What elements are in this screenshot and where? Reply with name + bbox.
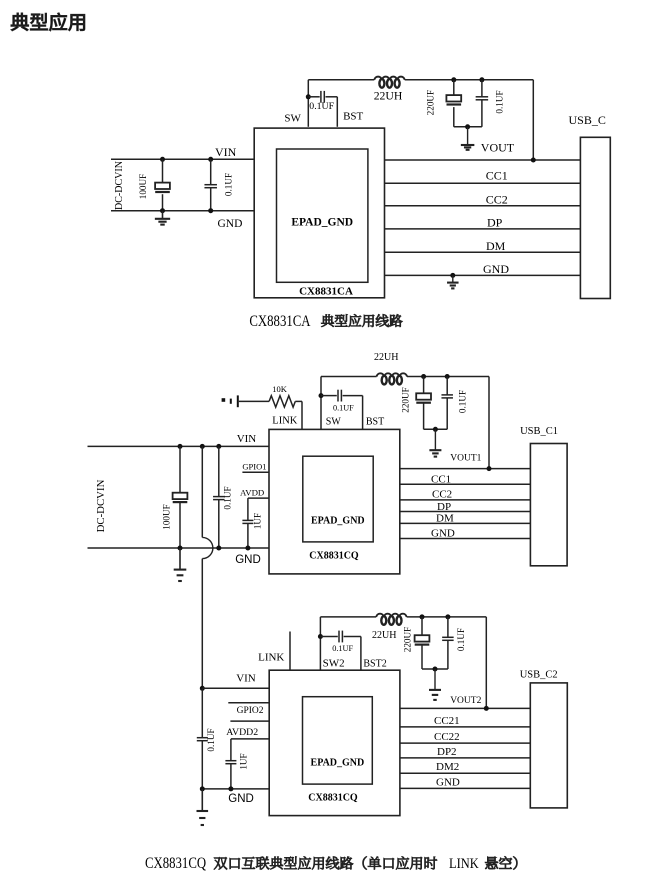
wire GND line (circuit 1) <box>385 274 581 276</box>
svg-text:CC1: CC1 <box>486 168 508 182</box>
svg-text:0.1UF: 0.1UF <box>458 390 468 413</box>
svg-text:CX8831CA: CX8831CA <box>299 286 353 298</box>
svg-text:EPAD_GND: EPAD_GND <box>311 515 365 526</box>
inductor L2 22UH (circuit 2) <box>377 373 407 384</box>
svg-text:DM: DM <box>436 513 454 525</box>
svg-text:SW2: SW2 <box>323 658 345 670</box>
svg-text:CX8831CQ: CX8831CQ <box>308 792 358 803</box>
U2 EPAD_GND inner pad box <box>303 456 373 542</box>
value label 0.1UF (C3) <box>309 101 334 112</box>
svg-text:CC2: CC2 <box>432 489 452 501</box>
ground symbol under output caps (circuit 1) <box>461 127 475 150</box>
wire VIN input (circuit 2) <box>88 445 270 447</box>
wire CC2 line (circuit 2) <box>400 499 531 501</box>
pin label AVDD2 (U3) <box>226 727 258 738</box>
wire DM2 line (circuit 3) <box>400 772 530 774</box>
pin label GND (U3 left) <box>228 793 254 805</box>
pin label GPIO1 (U2) <box>242 461 266 471</box>
net label CC1 (circuit 2) <box>431 473 451 485</box>
U2 label EPAD_GND <box>311 515 365 526</box>
pin label SW (U2) <box>326 416 342 427</box>
svg-text:22UH: 22UH <box>374 352 398 363</box>
net label DP (circuit 2) <box>437 501 451 513</box>
net label GND (circuit 2 right) <box>431 527 455 539</box>
U3 label EPAD_GND <box>311 757 365 768</box>
svg-text:VOUT2: VOUT2 <box>450 696 481 706</box>
svg-text:DC-DCVIN: DC-DCVIN <box>114 161 125 210</box>
value label 0.1UF (C10) <box>223 486 233 509</box>
svg-text:1UF: 1UF <box>238 753 248 769</box>
wire SW riser (circuit 2) <box>320 377 322 430</box>
wire CC21 line (circuit 3) <box>400 726 530 728</box>
svg-text:GND: GND <box>436 776 460 788</box>
pin stub AVDD2 (U3) <box>230 720 269 722</box>
svg-text:0.1UF: 0.1UF <box>223 486 233 509</box>
svg-text:100UF: 100UF <box>161 504 171 530</box>
svg-text:LINK: LINK <box>272 416 297 427</box>
value label 220UF (C7) <box>400 387 410 413</box>
svg-text:GND: GND <box>235 554 261 566</box>
wire VIN input (circuit 1) <box>111 158 254 160</box>
wire DP line (circuit 1) <box>385 228 581 230</box>
page title 典型应用 <box>11 13 85 31</box>
svg-text:EPAD_GND: EPAD_GND <box>311 757 365 768</box>
pin label LINK (U3) <box>258 652 284 664</box>
net label VOUT1 (circuit 2) <box>450 454 481 464</box>
U3 EPAD_GND inner pad box <box>303 697 373 784</box>
capacitor C2 0.1UF (circuit 1 input) <box>204 157 217 213</box>
ground symbol under C1 <box>155 211 170 225</box>
node VIN junction (circuit 3) <box>200 686 205 691</box>
node SW junction (circuit 2) <box>319 393 324 398</box>
svg-text:CX8831CQ: CX8831CQ <box>309 551 359 562</box>
net label DC-DCVIN (circuit 1) <box>114 161 125 210</box>
pin label BST2 (U3) <box>363 659 386 670</box>
svg-text:0.1UF: 0.1UF <box>309 101 334 112</box>
pin label GND (U2 left) <box>235 554 261 566</box>
pin label BST (U2) <box>366 416 384 427</box>
capacitor C10 0.1UF (circuit 2 input) <box>213 444 225 551</box>
wire top rail SW to output (circuit 2) <box>321 377 489 469</box>
wire SW riser (circuit 1) <box>307 80 309 127</box>
svg-text:GPIO2: GPIO2 <box>237 706 264 716</box>
wire CC1 line (circuit 1) <box>385 182 581 184</box>
svg-text:DP: DP <box>487 216 503 230</box>
pin label SW2 (U3) <box>323 658 345 670</box>
svg-text:AVDD: AVDD <box>240 487 264 497</box>
value label 0.1UF (C5) <box>494 90 504 113</box>
value label 100UF (C1) <box>138 174 148 200</box>
capacitor C9 100UF electrolytic (circuit 2) <box>173 444 188 551</box>
wire GND line (circuit 2) <box>400 538 531 540</box>
value label 220UF (C13) <box>403 627 413 653</box>
svg-text:DP2: DP2 <box>437 746 457 758</box>
net label CC21 (circuit 3) <box>434 715 460 727</box>
value label 22UH (L1) <box>374 90 403 103</box>
svg-text:0.1UF: 0.1UF <box>206 728 216 751</box>
wire CC22 line (circuit 3) <box>400 742 530 744</box>
node SW2 junction (circuit 3) <box>318 634 323 639</box>
wire interlink VIN drop with hop over GND (circuits 2-3) <box>200 444 213 688</box>
svg-text:220UF: 220UF <box>403 627 413 653</box>
capacitor C16 1UF on AVDD2 (circuit 3) <box>225 739 269 792</box>
svg-text:0.1UF: 0.1UF <box>332 644 353 653</box>
connector label USB_C2 <box>520 669 558 680</box>
svg-text:CC1: CC1 <box>431 473 451 485</box>
connector label USB_C1 <box>520 426 558 437</box>
svg-text:VIN: VIN <box>237 433 257 445</box>
inductor L3 22UH (circuit 3) <box>376 614 406 625</box>
svg-text:DM: DM <box>486 239 506 253</box>
svg-text:AVDD2: AVDD2 <box>226 727 258 738</box>
value label 0.1UF (C15) <box>206 728 216 751</box>
svg-text:EPAD_GND: EPAD_GND <box>291 217 353 229</box>
net label DP2 (circuit 3) <box>437 746 457 758</box>
svg-text:LINK: LINK <box>449 855 479 871</box>
U1 label EPAD_GND <box>291 217 353 229</box>
svg-text:BST: BST <box>366 416 384 427</box>
net label VOUT (circuit 1) <box>481 141 515 155</box>
net label DC-DCVIN (circuit 2) <box>95 479 107 532</box>
node SW junction (circuit 1) <box>306 94 311 99</box>
value label 0.1UF (C12) <box>332 644 353 653</box>
svg-text:VIN: VIN <box>236 673 256 685</box>
wire VOUT1 line to USB (circuit 2) <box>400 466 531 471</box>
svg-text:0.1UF: 0.1UF <box>494 90 504 113</box>
wire top rail SW2 to output (circuit 3) <box>320 617 486 709</box>
svg-text:0.1UF: 0.1UF <box>333 404 354 413</box>
svg-text:VOUT: VOUT <box>481 141 515 155</box>
svg-text:GPIO1: GPIO1 <box>242 461 266 471</box>
svg-text:SW: SW <box>326 416 342 427</box>
op-amp U1 CX8831CA outer body <box>254 128 384 298</box>
capacitor C1 100UF electrolytic (circuit 1) <box>155 157 170 213</box>
net label VOUT1 pin line CC1 (circuit 2) <box>400 483 531 485</box>
pin label VIN (U1) <box>215 145 237 159</box>
wire R1 to LINK pin (circuit 2) <box>239 401 302 429</box>
svg-text:220UF: 220UF <box>400 387 410 413</box>
capacitor C12 0.1UF bootstrap SW2-BST2 (circuit 3) <box>320 631 361 671</box>
inductor L1 22UH (circuit 1) <box>374 77 404 88</box>
U2 label CX8831CQ <box>309 551 359 562</box>
pin label GPIO2 (U3) <box>237 706 264 716</box>
wire top rail SW to output (circuit 1) <box>308 80 533 160</box>
svg-text:USB_C2: USB_C2 <box>520 669 558 680</box>
ground symbol under output caps (circuit 3) <box>429 669 441 700</box>
capacitor C3 0.1UF bootstrap SW-BST (circuit 1) <box>308 91 337 127</box>
capacitor C6 0.1UF bootstrap SW-BST (circuit 2) <box>321 390 363 430</box>
wire VOUT2 line to USB (circuit 3) <box>400 706 530 711</box>
net label DM (circuit 1) <box>486 239 506 253</box>
capacitor C5 0.1UF output (circuit 1) <box>476 77 489 127</box>
connector J2 USB_C1 body <box>530 444 567 566</box>
capacitor C15 0.1UF (circuit 3 input) <box>197 688 208 789</box>
pull-up stub symbol for R1 (circuit 2) <box>222 395 239 407</box>
net label CC2 (circuit 2) <box>432 489 452 501</box>
capacitor C13 220UF output electrolytic (circuit 3) <box>415 614 430 669</box>
value label 1UF (C11) <box>253 513 263 529</box>
value label 1UF (C16) <box>238 753 248 769</box>
wire output caps bottom join (circuit 3) <box>422 667 448 672</box>
svg-text:VOUT1: VOUT1 <box>450 454 481 464</box>
value label 10K (R1) <box>272 384 288 394</box>
svg-text:CX8831CQ: CX8831CQ <box>145 855 207 873</box>
svg-text:GND: GND <box>431 527 455 539</box>
pin label SW (U1) <box>284 112 301 124</box>
pin label VIN (U2) <box>237 433 257 445</box>
svg-text:CX8831CA: CX8831CA <box>249 313 311 331</box>
capacitor C7 220UF output electrolytic (circuit 2) <box>416 374 431 429</box>
ground symbol under VIN drop (circuit 3) <box>197 789 209 825</box>
wire output caps bottom join (circuit 2) <box>424 427 448 432</box>
U1 label CX8831CA <box>299 286 353 298</box>
wire GND input (circuit 2) <box>88 547 270 549</box>
svg-text:SW: SW <box>284 112 301 124</box>
wire DP line (circuit 2) <box>400 511 531 513</box>
value label 0.1UF (C8) <box>458 390 468 413</box>
net label GND (circuit 3 right) <box>436 776 460 788</box>
U1 EPAD_GND inner pad box <box>277 149 368 282</box>
wire CC2 line (circuit 1) <box>385 205 581 207</box>
value label 0.1UF (C2) <box>223 173 233 196</box>
net label DM2 (circuit 3) <box>436 761 459 773</box>
svg-text:CC22: CC22 <box>434 731 460 743</box>
op-amp U3 CX8831CQ outer body <box>269 670 400 815</box>
connector label USB_C <box>569 113 606 127</box>
svg-text:1UF: 1UF <box>253 513 263 529</box>
net label VOUT2 (circuit 3) <box>450 696 481 706</box>
value label 22UH (L2) <box>374 352 398 363</box>
wire DP2 line (circuit 3) <box>400 757 530 759</box>
capacitor C14 0.1UF output (circuit 3) <box>442 614 454 669</box>
net label CC22 (circuit 3) <box>434 731 460 743</box>
svg-text:DP: DP <box>437 501 451 513</box>
svg-text:10K: 10K <box>272 384 288 394</box>
value label 0.1UF (C6) <box>333 404 354 413</box>
svg-text:VIN: VIN <box>215 145 237 159</box>
svg-text:CC21: CC21 <box>434 715 460 727</box>
svg-text:0.1UF: 0.1UF <box>456 628 466 651</box>
caption CX8831CQ dual-port circuit <box>145 855 517 873</box>
svg-text:BST: BST <box>343 111 363 123</box>
pin label AVDD (U2) <box>240 487 264 497</box>
svg-text:220UF: 220UF <box>426 90 436 116</box>
pin label BST (U1) <box>343 111 363 123</box>
svg-text:USB_C1: USB_C1 <box>520 426 558 437</box>
svg-text:GND: GND <box>218 218 243 230</box>
wire VOUT line to USB (circuit 1) <box>385 158 581 163</box>
svg-text:BST2: BST2 <box>363 659 386 670</box>
ground symbol under C9 <box>174 548 187 581</box>
svg-text:CC2: CC2 <box>486 193 508 207</box>
capacitor C11 1UF on AVDD (circuit 2) <box>242 498 269 550</box>
net label CC1 (circuit 1) <box>486 168 508 182</box>
ground symbol under output caps (circuit 2) <box>429 429 441 456</box>
svg-text:DC-DCVIN: DC-DCVIN <box>95 479 107 532</box>
wire VIN input (circuit 3) <box>202 687 268 689</box>
svg-text:GND: GND <box>228 793 254 805</box>
wire GND input (circuit 3) <box>200 786 269 791</box>
svg-text:22UH: 22UH <box>372 630 396 641</box>
caption CX8831CA circuit <box>249 313 402 331</box>
capacitor C4 220UF output electrolytic (circuit 1) <box>446 77 461 127</box>
value label 0.1UF (C14) <box>456 628 466 651</box>
ground symbol on GND line (circuit 1) <box>447 273 459 289</box>
wire GND line (circuit 3) <box>400 787 530 789</box>
pin label VIN (U3) <box>236 673 256 685</box>
pin label GND (U1 left) <box>218 218 243 230</box>
value label 220UF (C4) <box>426 90 436 116</box>
svg-text:22UH: 22UH <box>374 90 403 103</box>
net label CC2 (circuit 1) <box>486 193 508 207</box>
pin label LINK (U2) <box>272 416 297 427</box>
pin stub LINK floating (U3) <box>289 632 291 671</box>
pin stub GPIO2 (U3) <box>228 702 269 704</box>
net label DP (circuit 1) <box>487 216 503 230</box>
connector J1 USB_C body <box>580 137 610 298</box>
value label 100UF (C9) <box>161 504 171 530</box>
net label GND (circuit 1 right) <box>483 262 509 276</box>
U3 label CX8831CQ <box>308 792 358 803</box>
capacitor C8 0.1UF output (circuit 2) <box>441 374 453 429</box>
wire SW2 riser (circuit 3) <box>319 617 321 670</box>
connector J3 USB_C2 body <box>530 683 567 808</box>
value label 22UH (L3) <box>372 630 396 641</box>
wire DM line (circuit 1) <box>385 251 581 253</box>
pin stub GPIO1 (U2) <box>242 471 269 473</box>
svg-text:DM2: DM2 <box>436 761 459 773</box>
svg-text:GND: GND <box>483 262 509 276</box>
svg-text:0.1UF: 0.1UF <box>223 173 233 196</box>
svg-text:USB_C: USB_C <box>569 113 606 127</box>
svg-text:100UF: 100UF <box>138 174 148 200</box>
wire output caps bottom join (circuit 1) <box>454 124 482 129</box>
resistor R1 10K on LINK (circuit 2) <box>269 396 295 407</box>
net label DM (circuit 2) <box>436 513 454 525</box>
wire GND input (circuit 1) <box>111 210 254 212</box>
svg-text:LINK: LINK <box>258 652 284 664</box>
op-amp U2 CX8831CQ outer body <box>269 429 400 574</box>
wire DM line (circuit 2) <box>400 522 531 524</box>
